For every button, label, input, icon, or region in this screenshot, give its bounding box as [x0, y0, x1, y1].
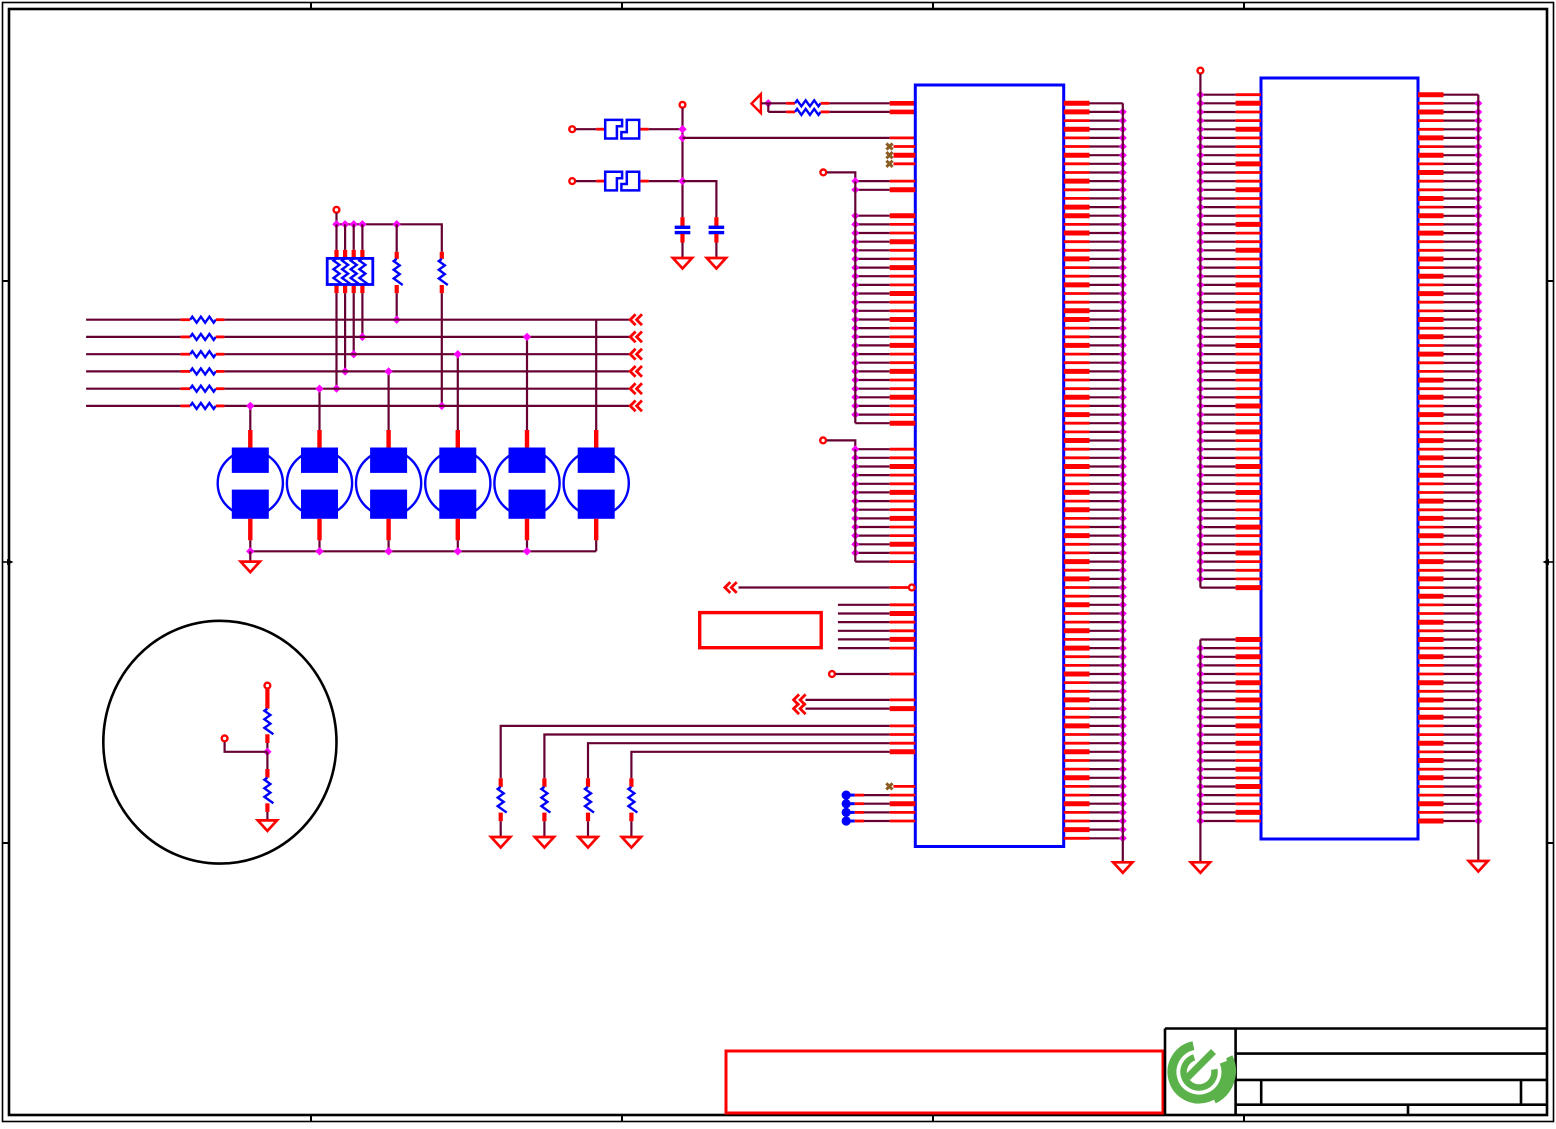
fuse F2 — [596, 180, 604, 183]
junction — [393, 220, 401, 228]
capacitor C2 — [714, 217, 718, 226]
wire net row 1 — [86, 319, 181, 321]
wire — [224, 388, 630, 390]
junction — [678, 177, 686, 185]
wire net pull 2 — [544, 735, 889, 779]
ground — [258, 820, 277, 831]
U1 blue-dot pins — [842, 791, 916, 826]
ground — [578, 837, 597, 848]
wire — [249, 540, 251, 551]
junction — [454, 547, 462, 555]
wire — [681, 243, 683, 259]
wire — [266, 812, 268, 821]
U2 left group 1 pins with bus — [1196, 74, 1261, 588]
wire — [335, 213, 337, 224]
ground U2 left bus — [1191, 862, 1210, 873]
wire — [827, 172, 855, 181]
net port chevron — [630, 383, 642, 394]
resistor R13 — [499, 778, 503, 787]
wire — [249, 551, 251, 561]
resistor R3 — [396, 224, 398, 252]
U1 right-side pins with bus wire — [1064, 103, 1127, 862]
wire net pull 3 — [588, 743, 890, 778]
ground — [622, 837, 641, 848]
terminal P4 — [334, 207, 340, 213]
net port chevron — [630, 314, 642, 325]
red annotation box small — [700, 613, 822, 648]
junction — [350, 350, 358, 358]
net port chevron wire k56 — [725, 582, 737, 593]
U1 wires from annotation area — [838, 605, 915, 648]
wire — [224, 319, 630, 321]
wire net row 2 — [86, 336, 181, 338]
red annotation box large — [726, 1051, 1163, 1113]
net port chevron — [630, 349, 642, 360]
wire — [526, 337, 528, 430]
terminal P10 — [1198, 68, 1204, 74]
resistor R7 — [181, 353, 191, 356]
junction — [764, 99, 772, 107]
net port chevron — [630, 401, 642, 412]
wire to U1 pin — [683, 137, 890, 139]
wire — [225, 742, 268, 752]
detail circle — [103, 621, 336, 864]
resistor R1 — [786, 102, 795, 105]
wire — [224, 405, 630, 407]
resistor R11 — [265, 689, 269, 709]
wire — [335, 224, 337, 250]
terminal P6 — [222, 736, 228, 742]
IC U2 — [1261, 78, 1418, 839]
junction — [341, 220, 349, 228]
junction — [384, 367, 392, 375]
resistor R5 — [181, 318, 191, 321]
terminal P3 — [569, 178, 575, 184]
button SW4 — [456, 430, 460, 448]
title block — [1165, 1029, 1547, 1116]
IC U1 — [915, 85, 1063, 847]
resistor R6 — [181, 335, 191, 338]
border center arrow right — [1548, 561, 1554, 563]
junction — [523, 333, 531, 341]
ground — [491, 837, 510, 848]
wire — [500, 821, 502, 837]
wire — [595, 540, 597, 551]
wire bus top — [337, 224, 442, 252]
wire — [576, 180, 597, 182]
button SW6 — [594, 430, 598, 448]
wire — [335, 293, 337, 389]
wire — [827, 440, 856, 449]
net port chevron — [630, 366, 642, 377]
junction — [315, 547, 323, 555]
wire — [715, 243, 717, 259]
ground — [535, 837, 554, 848]
terminal P5 — [265, 683, 271, 689]
wire net row 4 — [86, 370, 181, 372]
junction — [332, 220, 340, 228]
U2 left group 2 pins with bus — [1196, 640, 1261, 863]
resistor R15 — [586, 778, 590, 787]
resistor R16 — [629, 778, 633, 787]
terminal P7 group A — [820, 170, 826, 176]
pin bubble — [909, 585, 915, 591]
wire — [526, 540, 528, 551]
wire vertical net VCC — [681, 108, 683, 217]
resistor network RN1 — [334, 258, 343, 284]
junction — [246, 402, 254, 410]
junction — [263, 748, 271, 756]
resistor R9 — [181, 387, 191, 390]
wire net row 5 — [86, 388, 181, 390]
net port chevrons pair — [794, 694, 806, 705]
wire — [266, 743, 268, 752]
wire — [457, 540, 459, 551]
wire — [353, 293, 355, 354]
ground — [673, 258, 692, 269]
resistor R8 — [181, 370, 191, 373]
wire net row 3 — [86, 353, 181, 355]
wire — [829, 102, 889, 104]
wire elbow to C2 — [683, 181, 717, 217]
net port chevron — [630, 332, 642, 343]
wire — [249, 406, 251, 430]
wire — [344, 224, 346, 250]
wires pair to U1 — [806, 700, 916, 709]
wire common — [250, 550, 596, 552]
ground — [241, 562, 260, 573]
wire — [829, 111, 889, 113]
wire — [543, 821, 545, 837]
wire — [388, 540, 390, 551]
junction — [384, 547, 392, 555]
resistor R2 — [786, 111, 795, 114]
capacitor C1 — [680, 217, 684, 226]
junction — [332, 384, 340, 392]
ground — [707, 258, 726, 269]
wire — [595, 320, 597, 430]
wire — [344, 293, 346, 371]
resistor R12 — [266, 752, 268, 769]
wire net row 6 — [86, 405, 181, 407]
wire — [388, 371, 390, 430]
resistor R10 — [181, 404, 191, 407]
wire — [649, 180, 683, 182]
junction — [350, 220, 358, 228]
junction — [523, 547, 531, 555]
fuse F1 — [596, 128, 604, 131]
wire — [361, 293, 363, 337]
wire net pull 4 — [631, 752, 889, 779]
wire — [630, 821, 632, 837]
button SW5 — [525, 430, 529, 448]
wire — [224, 336, 630, 338]
U1 group A pins — [851, 177, 915, 423]
U1 no-connect pin bottom — [886, 783, 892, 789]
wire — [318, 540, 320, 551]
junction — [358, 220, 366, 228]
border center arrow left — [3, 561, 9, 563]
ground U2 right bus — [1469, 861, 1488, 872]
junction — [315, 385, 323, 393]
resistor R14 — [542, 778, 546, 787]
junction — [678, 125, 686, 133]
wire — [224, 353, 630, 355]
resistor R4 — [440, 252, 444, 259]
terminal P1 — [569, 126, 575, 132]
U1 group B pins — [851, 445, 915, 561]
wire — [587, 821, 589, 837]
terminal P8 group B — [820, 438, 826, 444]
wire — [457, 354, 459, 430]
ground U1 bus — [1113, 862, 1132, 873]
wire — [353, 224, 355, 250]
wire — [224, 370, 630, 372]
junction — [454, 350, 462, 358]
wire — [649, 128, 683, 130]
junction — [678, 134, 686, 142]
wire — [836, 673, 890, 675]
junction — [246, 547, 254, 555]
terminal P2 — [680, 102, 686, 108]
net flag arrow — [752, 94, 761, 113]
wire — [576, 128, 597, 130]
button SW2 — [317, 430, 321, 448]
EasyEDA logo — [1172, 1046, 1232, 1101]
wire — [361, 224, 363, 250]
wire — [318, 389, 320, 430]
wire — [761, 102, 786, 104]
button SW3 — [386, 430, 390, 448]
junction — [358, 333, 366, 341]
U2 right-side pins with bus — [1418, 95, 1482, 861]
junction — [341, 367, 349, 375]
terminal P9 — [829, 671, 835, 677]
wire net pull 1 — [501, 726, 890, 778]
U1 no-connect pins top — [886, 143, 915, 167]
button SW1 — [248, 430, 252, 448]
